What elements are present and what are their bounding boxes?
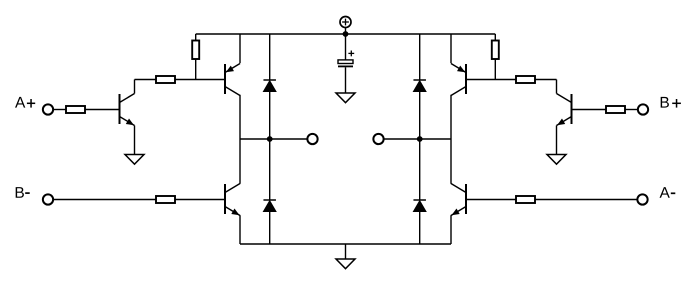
transistor Q4 [451,64,466,96]
diode D1 [263,80,276,92]
wire A+ terminal to R1 [54,109,66,111]
node A+ [15,97,25,108]
wire R1 to Q1 base [85,109,120,111]
node B- [16,187,24,198]
transistor Q6 [557,94,572,126]
wire R7 to base net [494,59,496,80]
wire rail to D1 [269,34,271,80]
resistor R1 [66,106,85,113]
wire rail to R3 [195,34,197,41]
terminal A+ [43,104,53,114]
transistor Q5 [451,184,466,216]
wire output node to D4 [419,139,421,200]
wire R8 to Q5 base [466,199,516,201]
wire R6 to Q4 base [466,79,516,81]
wire Q6 emitter down [556,126,558,155]
terminal B+ [638,104,648,114]
ground below C1 [336,93,355,103]
wire Q4 collector down [450,95,452,139]
diode D2 [263,200,276,212]
wire top V+ rail [196,33,496,35]
wire R4 to Q3 base [175,199,225,201]
junction right output [417,136,423,142]
wire bottom rail to ground [345,244,347,259]
wire D4 to bottom rail [419,212,421,245]
wire Q4 emitter to rail [450,34,452,63]
ground Q1 emitter [125,155,144,165]
wire R2 to Q2 base [175,79,225,81]
junction left output [267,136,273,142]
wire rail to D3 [419,34,421,80]
wire D3 to output node [419,92,421,140]
node B+ [661,97,669,108]
capacitor C1 [338,51,354,67]
wire bottom rail [240,243,451,245]
wire Q1 emitter down [134,126,136,155]
transistor Q3 [225,184,240,216]
transistor Q1 [120,94,135,126]
wire Q3 collector up [239,139,241,184]
wire output node to D2 [269,139,271,200]
wire D2 to bottom rail [269,212,271,245]
wire output left [240,138,307,140]
wire V+ terminal to rail [345,28,347,34]
diode D4 [413,200,426,212]
resistor R8 [516,196,535,203]
diode D3 [413,80,426,92]
wire Q2 collector down [239,95,241,139]
wire B- terminal to R4 [54,199,156,201]
junction V+ rail [343,31,349,37]
resistor R7 [492,41,499,60]
wire Q5 emitter down [450,215,452,244]
wire R5 to Q6 base [572,109,607,111]
terminal B- [43,194,53,204]
wire Q6 collector to R6 [535,79,557,81]
terminal output right [373,134,383,144]
node A- [660,187,670,198]
ground bottom rail [336,259,355,269]
wire Q6 collector up [556,80,558,94]
wire rail to C1 [345,34,347,60]
wire Q1 collector up [134,80,136,94]
wire Q2 emitter to rail [239,34,241,63]
wire output right [384,138,451,140]
resistor R6 [516,76,535,83]
resistor R3 [192,41,199,60]
transistor Q2 [225,64,240,96]
wire Q5 collector up [450,139,452,184]
terminal output left [307,134,317,144]
resistor R5 [606,106,625,113]
wire B+ terminal to R5 [625,109,637,111]
resistor R4 [156,196,175,203]
wire C1 to ground [345,67,347,93]
power terminal V+ [340,17,351,28]
wire A- terminal to R8 [535,199,637,201]
wire R3 to base net [195,59,197,80]
ground Q6 emitter [547,155,566,165]
wire D1 to output node [269,92,271,140]
terminal A- [637,194,647,204]
wire rail to R7 [494,34,496,41]
resistor R2 [156,76,175,83]
wire Q1 collector to R2 [135,79,157,81]
wire Q3 emitter down [239,215,241,244]
